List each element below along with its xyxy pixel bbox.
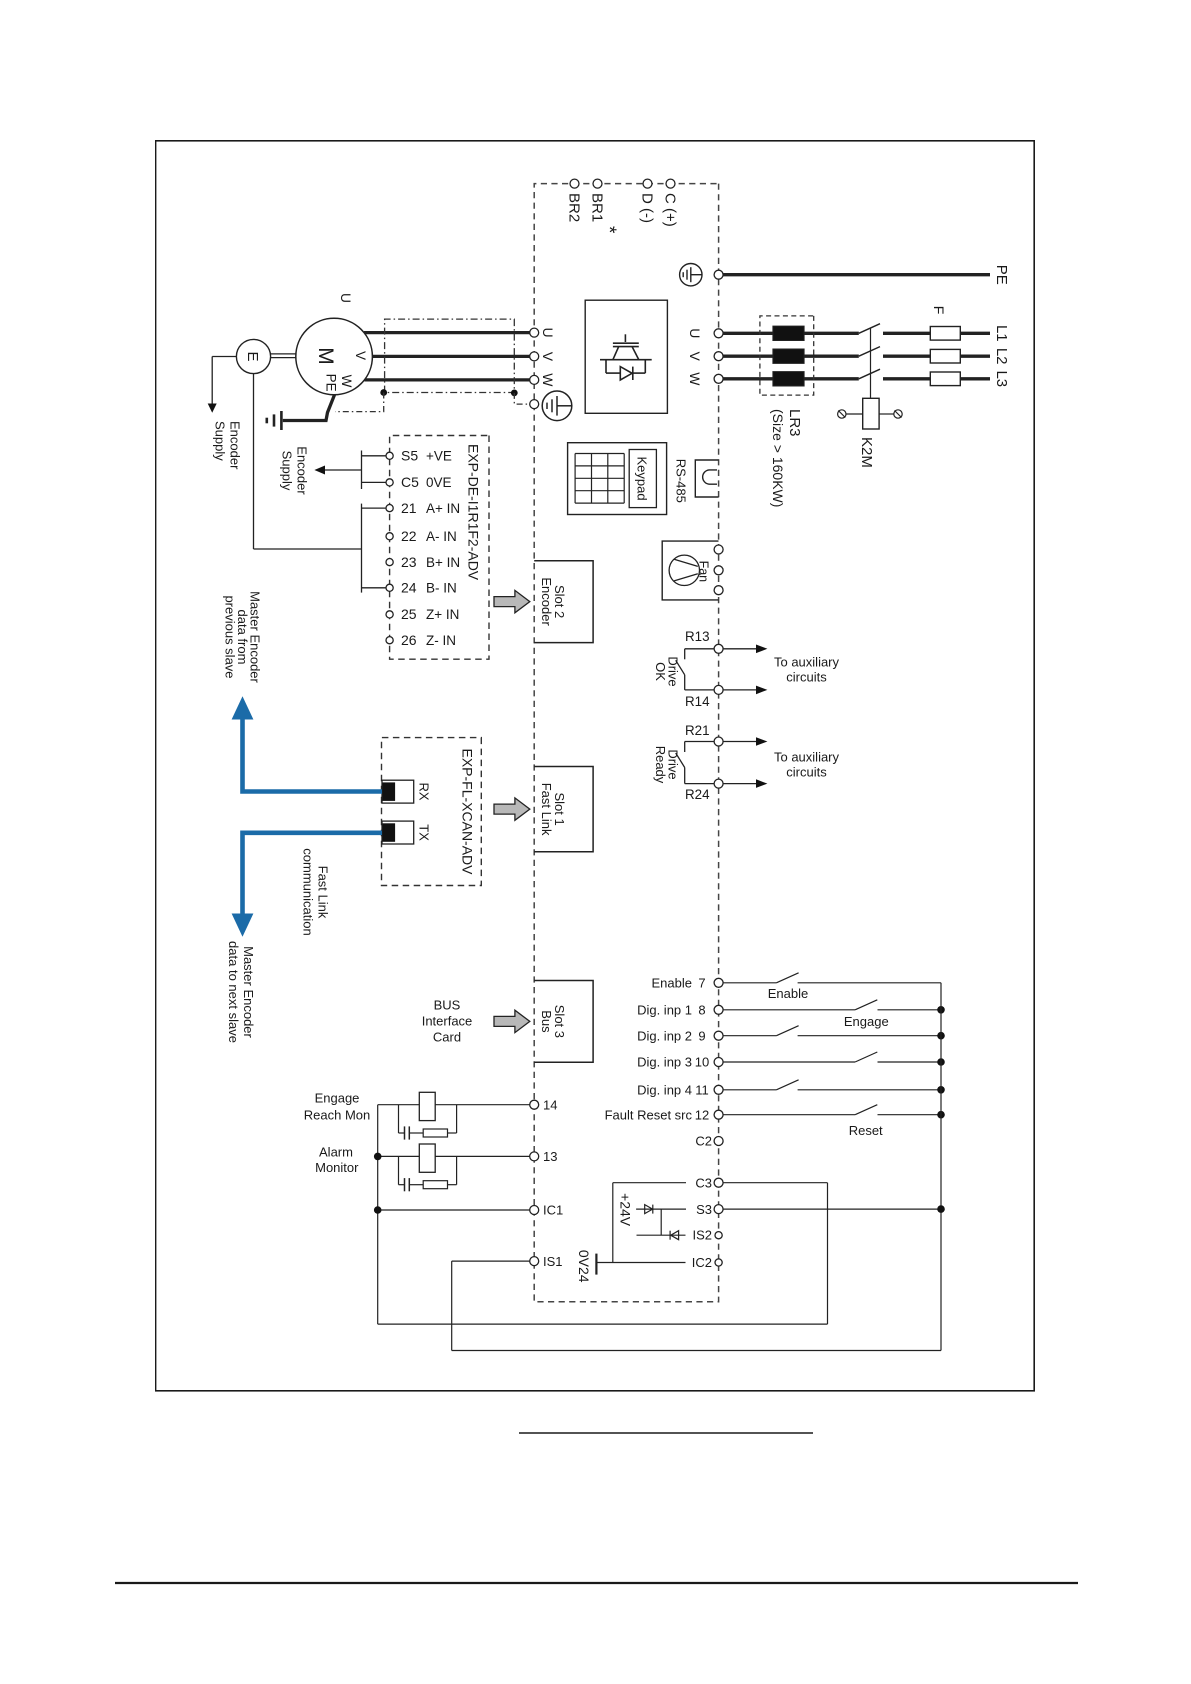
terminal C2 — [714, 1137, 723, 1146]
inverter IGBT box — [585, 300, 667, 413]
svg-text:8: 8 — [698, 1003, 705, 1018]
K2M aux circle bottom — [838, 410, 863, 418]
terminal 23 EXP-DE — [386, 559, 393, 566]
svg-text:Reset: Reset — [849, 1123, 883, 1138]
reactor winding L2 — [773, 349, 804, 363]
wire monitor output — [378, 1155, 530, 1157]
wire branch S3 IS2 — [660, 1209, 662, 1235]
diode D2 IS2 — [671, 1231, 679, 1240]
encoder shaft coupling — [271, 353, 296, 355]
terminal Drive — [714, 737, 723, 746]
svg-text:To auxiliary: To auxiliary — [774, 750, 840, 765]
encoder signal bracket — [362, 507, 387, 509]
blue fast link wire RX — [243, 719, 383, 792]
switch input 12 — [855, 1105, 877, 1115]
footer rule — [115, 1582, 1078, 1584]
keypad label box — [629, 450, 656, 508]
terminal digital input 7 — [714, 978, 723, 987]
svg-text:circuits: circuits — [786, 670, 827, 685]
switch input 11 — [776, 1080, 798, 1090]
arrow to auxiliary from OK — [723, 689, 758, 691]
wire U motor — [364, 331, 530, 334]
svg-text:Alarm: Alarm — [319, 1144, 353, 1159]
shield dash-dot box — [385, 319, 515, 392]
svg-text:R21: R21 — [685, 723, 710, 738]
svg-text:C2: C2 — [695, 1134, 712, 1149]
slot box Slot 1 Fast Link — [534, 767, 593, 852]
terminal C (+) — [666, 179, 675, 188]
card EXP-DE-I1R1F2-ADV dashed box — [390, 436, 489, 660]
relay coil monitor — [419, 1092, 435, 1120]
motor PE lead — [283, 395, 335, 421]
svg-text:23: 23 — [401, 554, 417, 570]
fuse F L3 — [930, 372, 960, 386]
svg-text:Dig. inp 2: Dig. inp 2 — [637, 1028, 692, 1043]
svg-text:24: 24 — [401, 580, 417, 596]
bus wire common — [940, 983, 942, 1351]
wire input 9 upper — [798, 1035, 941, 1037]
wire W motor — [364, 378, 529, 381]
terminal 26 EXP-DE — [386, 637, 393, 644]
switch input 7 — [776, 973, 798, 983]
svg-text:9: 9 — [698, 1028, 705, 1043]
wire C3 up — [723, 1182, 827, 1184]
wire V motor — [372, 355, 529, 358]
svg-text:12: 12 — [695, 1107, 709, 1122]
svg-text:Z+ IN: Z+ IN — [426, 607, 459, 622]
bus wire to IS1 — [451, 1261, 453, 1350]
wire L1 contactor to reactor — [723, 332, 859, 335]
ground 0V24 bar — [595, 1254, 597, 1275]
wire C3 loop right — [827, 1183, 829, 1324]
wire input 8 upper — [878, 1009, 942, 1011]
encoder E circle — [236, 339, 270, 373]
contactor K2M coil — [863, 398, 879, 429]
svg-text:BUS: BUS — [434, 998, 461, 1013]
svg-text:R13: R13 — [685, 629, 710, 644]
capacitor plates — [404, 1178, 406, 1191]
svg-text:Engage: Engage — [315, 1091, 360, 1106]
wire C3 internal — [613, 1182, 686, 1184]
motor M circle — [296, 318, 373, 395]
wire input 10 upper — [878, 1061, 942, 1063]
wire input 12 lower — [723, 1114, 855, 1116]
K2M aux circle top — [879, 410, 902, 418]
drive dashed enclosure — [534, 184, 718, 1302]
wire L3 supply — [960, 377, 990, 380]
wire encoder supply — [212, 356, 236, 358]
svg-text:S5: S5 — [401, 448, 418, 464]
wire IC1 — [378, 1209, 530, 1211]
terminal 22 EXP-DE — [386, 533, 393, 540]
connector TX — [382, 821, 414, 844]
svg-text:IC2: IC2 — [692, 1255, 712, 1270]
junction dot 13 — [374, 1153, 382, 1161]
arrow to auxiliary from Ready — [723, 783, 758, 785]
terminal 13 — [530, 1152, 539, 1161]
terminal C3 — [714, 1178, 723, 1187]
page frame — [156, 141, 1035, 1391]
terminal 24 EXP-DE — [386, 584, 393, 591]
wire input 8 lower — [723, 1009, 855, 1011]
svg-text:0VE: 0VE — [426, 475, 452, 490]
svg-text:C3: C3 — [695, 1175, 712, 1190]
terminal digital input 11 — [714, 1085, 723, 1094]
svg-text:circuits: circuits — [786, 765, 827, 780]
svg-text:B+ IN: B+ IN — [426, 555, 460, 570]
wire L3 fuse to contactor — [883, 377, 930, 380]
svg-text:R24: R24 — [685, 787, 710, 802]
svg-text:B- IN: B- IN — [426, 581, 457, 596]
wire input 12 upper — [878, 1114, 942, 1116]
terminal digital input 8 — [714, 1005, 723, 1014]
wire L2 contactor to reactor — [723, 355, 859, 358]
junction dot IC1 — [374, 1206, 382, 1214]
terminal BR1 — [593, 179, 602, 188]
switch input 10 — [855, 1052, 877, 1062]
terminal PE output — [530, 400, 539, 409]
fuse F L2 — [930, 349, 960, 363]
terminal OK — [714, 685, 723, 694]
svg-text:Enable: Enable — [768, 986, 808, 1001]
wire input 11 lower — [723, 1089, 776, 1091]
wire L3 contactor to reactor — [723, 377, 859, 380]
slot box Slot 2 Encoder — [534, 561, 593, 643]
switch input 8 — [855, 1000, 877, 1010]
IGBT symbol — [600, 334, 652, 380]
terminal IS2 — [715, 1232, 722, 1239]
terminal S3 — [714, 1205, 723, 1214]
shield link to PE terminal — [514, 393, 529, 404]
terminal V output — [530, 352, 539, 361]
terminal L3 input — [714, 374, 723, 383]
terminal 21 EXP-DE — [386, 505, 393, 512]
svg-text:S3: S3 — [696, 1202, 712, 1217]
svg-text:Enable: Enable — [652, 976, 692, 991]
wire S3 to bus — [723, 1208, 941, 1210]
keypad box — [568, 443, 667, 515]
svg-text:25: 25 — [401, 606, 417, 622]
arrow to auxiliary from Drive — [723, 648, 758, 650]
slot box Slot 3 Bus — [534, 981, 593, 1063]
terminal C5 EXP-DE — [386, 479, 393, 486]
wire input 7 lower — [723, 982, 776, 984]
svg-text:R14: R14 — [685, 694, 710, 709]
terminal Ready — [714, 779, 723, 788]
arrow encoder supply 2 — [325, 469, 362, 471]
reactor winding L1 — [773, 326, 804, 340]
fan box — [662, 541, 718, 600]
RC suppressor branch — [456, 1156, 458, 1184]
terminal BR2 — [570, 179, 579, 188]
junction dot input 9 — [937, 1032, 945, 1040]
svg-text:10: 10 — [695, 1055, 709, 1070]
terminal Drive — [714, 644, 723, 653]
svg-text:IC1: IC1 — [543, 1203, 563, 1218]
junction dot shield top — [511, 390, 518, 397]
terminal D (-) — [643, 179, 652, 188]
contactor K2M pole L1 — [859, 324, 880, 334]
wire IS2 internal — [637, 1234, 686, 1236]
ground symbol motor — [267, 411, 282, 430]
relay contact Drive OK — [685, 648, 714, 650]
reactor LR3 dashed box — [760, 316, 814, 395]
connector RX — [382, 780, 414, 803]
terminal PE — [714, 270, 723, 279]
wire input 9 lower — [723, 1035, 776, 1037]
svg-text:Fault Reset src: Fault Reset src — [605, 1107, 693, 1122]
RS-485 connector — [695, 460, 718, 497]
terminal IC2 — [715, 1259, 722, 1266]
encoder supply bracket — [362, 455, 387, 457]
reactor winding L3 — [773, 372, 804, 386]
contactor K2M pole L3 — [859, 369, 880, 379]
terminal 14 — [530, 1100, 539, 1109]
svg-text:Dig. inp 1: Dig. inp 1 — [637, 1003, 692, 1018]
svg-text:26: 26 — [401, 632, 417, 648]
svg-text:Dig. inp 4: Dig. inp 4 — [637, 1083, 692, 1098]
junction dot S3 bus — [937, 1205, 945, 1213]
svg-text:A+ IN: A+ IN — [426, 501, 460, 516]
terminal IS1 — [530, 1257, 539, 1266]
wire encoder to card — [254, 548, 362, 550]
svg-text:C5: C5 — [401, 474, 419, 490]
wire IC2 internal — [596, 1262, 685, 1264]
svg-text:14: 14 — [543, 1097, 557, 1112]
terminal U output — [530, 328, 539, 337]
bus wire down right — [452, 1350, 941, 1352]
wire L2 supply — [960, 355, 990, 358]
svg-text:11: 11 — [695, 1083, 709, 1098]
svg-text:Dig. inp 3: Dig. inp 3 — [637, 1055, 692, 1070]
resistor box — [423, 1129, 447, 1137]
terminal L1 input — [714, 329, 723, 338]
svg-text:21: 21 — [401, 500, 417, 516]
wire input 11 upper — [798, 1089, 941, 1091]
junction dot input 8 — [937, 1006, 945, 1014]
card EXP-FL-XCAN-ADV dashed box — [382, 738, 482, 886]
RC suppressor branch — [456, 1105, 458, 1133]
arrow encoder supply — [208, 404, 217, 413]
terminal W output — [530, 375, 539, 384]
separator line — [519, 1432, 813, 1434]
arrow to auxiliary from Drive — [723, 741, 758, 743]
wire L1 supply — [960, 332, 990, 335]
blue fast link wire TX — [243, 833, 383, 915]
terminal digital input 12 — [714, 1110, 723, 1119]
wire S3 internal +24V — [636, 1208, 686, 1210]
terminal digital input 9 — [714, 1031, 723, 1040]
relay contact Drive Ready — [685, 741, 714, 743]
wire monitor output — [378, 1104, 530, 1106]
svg-text:Interface: Interface — [422, 1014, 473, 1029]
fan terminals — [714, 545, 723, 554]
fan symbol — [669, 555, 699, 585]
junction dot shield bottom — [380, 389, 387, 396]
fuse F L1 — [930, 327, 960, 341]
earth symbol output — [542, 391, 572, 421]
relay coil monitor — [419, 1144, 435, 1172]
svg-text:To auxiliary: To auxiliary — [774, 655, 840, 670]
svg-text:13: 13 — [543, 1149, 557, 1164]
wire input 10 lower — [723, 1061, 855, 1063]
wire input 7 upper — [798, 982, 941, 984]
resistor box — [423, 1181, 447, 1189]
keypad key grid — [575, 454, 624, 504]
svg-text:7: 7 — [698, 976, 705, 991]
wire L2 fuse to contactor — [883, 355, 930, 358]
junction dot input 11 — [937, 1086, 945, 1094]
svg-text:Reach Mon: Reach Mon — [304, 1108, 370, 1123]
svg-text:Card: Card — [433, 1030, 461, 1045]
grey arrow into Slot 3 — [494, 1010, 530, 1032]
grey arrow into Slot 1 — [494, 798, 530, 820]
svg-text:22: 22 — [401, 528, 417, 544]
terminal L2 input — [714, 352, 723, 361]
contactor K2M pole L2 — [859, 347, 880, 357]
svg-text:IS1: IS1 — [543, 1254, 563, 1269]
terminal digital input 10 — [714, 1058, 723, 1067]
junction dot input 12 — [937, 1111, 945, 1119]
wire C3 loop down — [378, 1323, 828, 1325]
svg-text:Engage: Engage — [844, 1014, 889, 1029]
earth symbol input — [680, 264, 702, 286]
terminal IC1 — [530, 1206, 539, 1215]
grey arrow into Slot 2 — [494, 590, 530, 612]
shield link to motor PE — [335, 393, 384, 412]
contactor K2M linkage — [870, 329, 872, 399]
svg-text:Monitor: Monitor — [315, 1160, 359, 1175]
switch input 9 — [776, 1026, 798, 1036]
terminal S5 EXP-DE — [386, 452, 393, 459]
svg-text:Z- IN: Z- IN — [426, 633, 456, 648]
terminal 25 EXP-DE — [386, 611, 393, 618]
svg-text:IS2: IS2 — [692, 1227, 712, 1242]
wire L1 fuse to contactor — [883, 332, 930, 335]
svg-text:+VE: +VE — [426, 449, 452, 464]
wire monitor common — [377, 1105, 379, 1324]
wire IS1 — [452, 1260, 530, 1262]
svg-text:A- IN: A- IN — [426, 529, 457, 544]
wire PE line — [723, 273, 990, 276]
diode D1 +24V to S3 — [645, 1205, 653, 1214]
capacitor plates — [404, 1126, 406, 1139]
junction dot input 10 — [937, 1058, 945, 1066]
